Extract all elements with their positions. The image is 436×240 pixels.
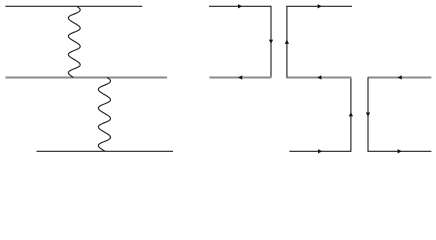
arrow right on diagram-2 bottom segment xyxy=(318,149,322,153)
fermion line top (left diagram) xyxy=(5,5,142,7)
arrow left on diagram-2 middle segment xyxy=(317,75,321,79)
time-ordered diagram 1: C-shaped fermion path xyxy=(209,6,271,77)
time-ordered diagram 3: C-shaped fermion path xyxy=(368,77,432,79)
diagram-2 left vertical and top segment xyxy=(287,6,352,77)
arrow right on diagram-2 top segment xyxy=(318,4,322,8)
arrow down on diagram-1 vertical segment xyxy=(269,40,273,44)
photon propagator 2 (wavy line, middle to bottom) xyxy=(98,77,110,151)
time-ordered diagram 2: Z-shaped fermion path xyxy=(289,77,351,151)
fermion line middle (left diagram) xyxy=(6,77,168,79)
fermion line bottom (left diagram) xyxy=(37,150,174,152)
photon propagator 1 (wavy line, top to middle) xyxy=(68,6,80,77)
arrow left on diagram-3 top segment xyxy=(398,75,402,79)
arrow right on diagram-3 bottom segment xyxy=(398,149,402,153)
diagram-3 vertical and bottom segment xyxy=(368,77,431,151)
arrow up on diagram-2 right vertical xyxy=(349,112,353,116)
arrow down on diagram-3 vertical segment xyxy=(366,112,370,116)
diagram-1 bottom segment (soft) xyxy=(210,77,272,79)
diagram-2 middle segment (soft) xyxy=(286,77,351,79)
arrow left on diagram-1 bottom segment xyxy=(238,75,242,79)
arrow up on diagram-2 left vertical xyxy=(285,40,289,44)
arrow right on diagram-1 top segment xyxy=(238,4,242,8)
